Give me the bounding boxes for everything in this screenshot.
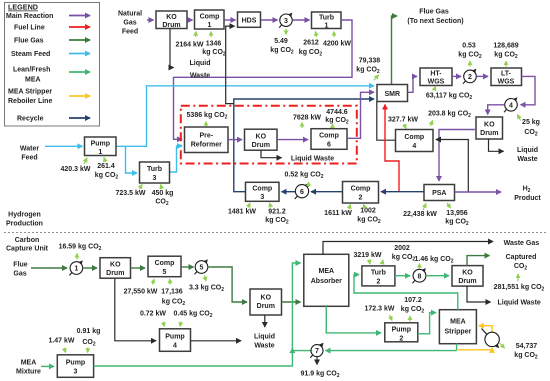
unit KO Drum (CO2 product)	[452, 266, 483, 287]
svg-text:PSA: PSA	[432, 190, 446, 197]
svg-text:MEA: MEA	[21, 360, 37, 367]
svg-text:Carbon: Carbon	[15, 237, 40, 244]
svg-text:27,550 kW: 27,550 kW	[124, 289, 158, 296]
wire purple: PSA to H2 product	[455, 191, 502, 193]
label 0.91 kg CO2	[77, 328, 101, 353]
svg-text:MEA: MEA	[319, 268, 335, 275]
svg-text:723.5 kW: 723.5 kW	[116, 190, 146, 197]
label 327.7 kW	[388, 117, 418, 129]
wire black: KO Drum liquid waste	[170, 29, 174, 68]
svg-text:54,737: 54,737	[516, 343, 538, 350]
node H2 Product	[514, 186, 541, 203]
wire purple: valve 4 to KO Drum (H2)	[488, 105, 505, 115]
wire purple: Pre-Reformer to KO Drum (mid)	[228, 139, 242, 141]
svg-text:KO: KO	[484, 122, 495, 129]
svg-text:Turb: Turb	[319, 15, 334, 22]
svg-text:Liquid Waste: Liquid Waste	[291, 155, 334, 162]
wire purple: LT-WGS to valve 4	[521, 76, 536, 104]
node Flue Gas (To next Section)	[407, 9, 463, 26]
wire green: valve 8 to KO Drum (CO2)	[426, 275, 449, 277]
svg-text:128,689: 128,689	[493, 43, 518, 50]
wire navy: PSA to Comp 2	[381, 191, 424, 193]
label 921.2 kg CO2	[265, 203, 289, 226]
svg-text:6: 6	[300, 189, 304, 196]
svg-text:Main Reaction: Main Reaction	[6, 13, 53, 20]
unit LT-WGS	[491, 68, 522, 86]
svg-text:Lean/Fresh: Lean/Fresh	[13, 67, 50, 74]
node Hydrogen Production	[6, 212, 43, 228]
svg-text:Steam Feed: Steam Feed	[11, 51, 50, 58]
svg-text:172.3 kW: 172.3 kW	[365, 306, 395, 313]
svg-text:2: 2	[359, 195, 363, 202]
node Water Feed	[20, 146, 39, 162]
node Liquid Waste (H2 KO drum)	[517, 147, 538, 163]
svg-text:4: 4	[509, 102, 513, 109]
svg-text:Liquid: Liquid	[517, 147, 538, 154]
wire purple: valve 3 to Turb 1	[293, 19, 310, 21]
svg-text:Drum: Drum	[257, 303, 275, 310]
svg-text:Comp: Comp	[252, 186, 272, 193]
svg-text:MEA: MEA	[450, 319, 466, 326]
svg-text:5: 5	[200, 265, 204, 272]
label 17,136 kg CO2	[161, 279, 185, 307]
wire dark green: Comp 5 to valve 5	[181, 266, 194, 268]
svg-text:(To next Section): (To next Section)	[407, 18, 463, 25]
svg-text:22,438 kW: 22,438 kW	[403, 211, 437, 218]
wire black: absorber waste gas	[323, 242, 493, 255]
svg-text:107.2: 107.2	[404, 297, 422, 304]
svg-text:3: 3	[284, 18, 288, 25]
wire navy: Comp 3 recycle to SMR	[234, 99, 374, 192]
legend row Lean/Fresh MEA	[13, 67, 90, 84]
svg-text:Flue Gas: Flue Gas	[419, 9, 449, 16]
label 450 kg CO2	[152, 185, 174, 208]
unit SMR	[377, 85, 408, 102]
unit Pump 2	[385, 323, 418, 343]
node MEA Mixture	[16, 360, 41, 376]
label 16.59 kg CO2	[59, 244, 102, 260]
label 3.3 kg CO2	[189, 276, 224, 294]
node Natural Gas Feed	[118, 11, 142, 36]
svg-text:17,136: 17,136	[161, 289, 183, 296]
wire black: KO Drum 2 liquid waste	[264, 315, 266, 327]
label 54,737 kg CO2	[500, 343, 538, 361]
svg-text:Gas: Gas	[13, 271, 26, 278]
svg-text:1481 kW: 1481 kW	[228, 209, 256, 216]
svg-text:KO: KO	[462, 270, 473, 277]
svg-text:Drum: Drum	[480, 130, 498, 137]
unit KO Drum 2 (capture)	[250, 289, 282, 315]
svg-text:Capture Unit: Capture Unit	[6, 246, 49, 253]
svg-text:Absorber: Absorber	[311, 278, 342, 285]
svg-text:3219 kW: 3219 kW	[353, 252, 381, 259]
label 281,551 kg CO2	[494, 274, 545, 293]
svg-text:4200 kW: 4200 kW	[323, 41, 351, 48]
wire green: lean MEA from stripper through valve 7	[326, 350, 457, 352]
wire black: Pump 4 to liquid waste	[191, 340, 242, 342]
svg-text:KO: KO	[166, 14, 177, 21]
svg-text:5: 5	[163, 269, 167, 276]
wire purple: HT-WGS to valve 2	[452, 75, 461, 77]
node Captured CO2	[506, 254, 537, 272]
svg-text:MEA Stripper: MEA Stripper	[8, 89, 52, 96]
unit MEA Stripper	[439, 310, 476, 344]
label 107.2 kg CO2	[401, 297, 425, 322]
svg-text:KO: KO	[261, 295, 272, 302]
wire dark green: flue gas to valve 1	[31, 267, 67, 269]
wire black: valve 7 CO2 release	[316, 357, 318, 365]
label 420.3 kW	[61, 158, 91, 173]
label 0.45 kg CO2	[174, 311, 213, 327]
wire black: KO Drum (mid) liquid waste	[261, 150, 282, 157]
label 2002 kg CO2	[382, 245, 415, 265]
unit Comp 2	[343, 182, 379, 204]
unit PSA	[424, 185, 455, 201]
wire dark green: SMR flue gas to next section	[392, 16, 398, 85]
label 1.47 kW	[48, 338, 74, 353]
svg-text:Feed: Feed	[122, 29, 138, 36]
svg-text:1346: 1346	[206, 41, 222, 48]
svg-text:Pump: Pump	[165, 334, 184, 341]
svg-text:Waste: Waste	[190, 73, 210, 80]
node Liquid Waste (feed KO drum)	[190, 60, 211, 80]
valve 2	[463, 69, 476, 83]
label 172.3 kW	[365, 306, 395, 321]
svg-text:0.53: 0.53	[462, 43, 476, 50]
unit HT-WGS	[420, 68, 452, 86]
label 5.49 kg CO2	[270, 29, 294, 56]
wire purple: KO Drum to Comp 1	[188, 19, 193, 21]
svg-text:Waste: Waste	[254, 343, 274, 350]
svg-text:Product: Product	[514, 195, 541, 202]
svg-text:Reboiler Line: Reboiler Line	[8, 98, 52, 105]
svg-text:HDS: HDS	[242, 18, 257, 25]
svg-text:Turb: Turb	[371, 270, 386, 277]
svg-text:Waste: Waste	[517, 156, 537, 163]
label 0.52 kg CO2	[285, 172, 324, 188]
svg-text:3: 3	[153, 175, 157, 182]
unit Turb 1	[312, 12, 342, 30]
svg-text:Liquid Waste: Liquid Waste	[498, 300, 541, 307]
svg-text:2164 kW: 2164 kW	[175, 42, 203, 49]
svg-text:Stripper: Stripper	[444, 329, 471, 336]
unit Pump 3	[57, 355, 93, 378]
label 79,338 kg CO2	[356, 58, 380, 81]
svg-text:Reformer: Reformer	[191, 142, 222, 149]
svg-text:4: 4	[173, 343, 177, 350]
svg-text:Feed: Feed	[21, 155, 37, 162]
svg-text:Mixture: Mixture	[16, 369, 41, 376]
wire cyan: water feed to Pump 1	[45, 145, 83, 147]
wire black: KO Drum (CO2) liquid waste	[467, 286, 491, 302]
wire cyan: steam header Pump 1 to SMR	[116, 86, 374, 147]
label 0.72 kW	[140, 311, 166, 327]
unit HDS	[238, 12, 261, 27]
wire purple: Comp 6 to SMR	[347, 92, 374, 138]
label 27,550 kW	[124, 279, 158, 296]
wire purple: Turb 1 down-left to Pre-Reformer	[174, 20, 353, 139]
svg-text:0.91 kg: 0.91 kg	[77, 328, 101, 335]
label 4744.6 kg CO2	[325, 109, 349, 128]
label 13,956 kg CO2	[445, 203, 469, 227]
label 1481 kW	[228, 203, 256, 216]
svg-text:4744.6: 4744.6	[326, 109, 348, 116]
wire black: recycle branch to HDS	[226, 26, 235, 104]
wire purple: KO Drum (mid) to Comp 6	[277, 139, 308, 141]
unit Comp 1	[195, 10, 225, 29]
svg-text:Comp: Comp	[200, 14, 220, 21]
wire green: absorber rich MEA to Pump 2	[326, 306, 381, 333]
svg-text:Comp: Comp	[319, 133, 339, 140]
svg-text:Drum: Drum	[106, 270, 124, 277]
svg-text:1: 1	[98, 149, 102, 156]
wire green: Pump 3 fresh MEA to absorber	[94, 263, 301, 366]
svg-text:6: 6	[327, 142, 331, 149]
svg-text:Waste Gas: Waste Gas	[504, 240, 540, 247]
wire dark green: valve 5 to KO Drum 2 (capture)	[208, 267, 247, 302]
svg-text:1: 1	[208, 22, 212, 29]
valve 4	[504, 98, 517, 112]
svg-text:5.49: 5.49	[274, 38, 288, 45]
wire green: MEA mixture to Pump 3	[41, 365, 54, 367]
unit KO Drum (feed)	[156, 11, 187, 29]
wire yellow: stripper bottoms to reboiler	[458, 348, 492, 350]
node Carbon Capture Unit	[6, 237, 49, 253]
wire yellow: reboiler return to stripper	[479, 326, 492, 333]
label 1611 kW	[324, 205, 352, 218]
svg-text:2: 2	[399, 336, 403, 343]
unit KO Drum (capture feed)	[100, 258, 131, 279]
wire purple: Comp 1 to HDS	[225, 19, 236, 21]
svg-text:Drum: Drum	[162, 22, 180, 29]
svg-text:2: 2	[376, 279, 380, 286]
wire black: KO Drum (capture feed) to Pump 4	[115, 278, 156, 341]
svg-text:Comp: Comp	[155, 260, 175, 267]
valve 5	[195, 260, 208, 274]
svg-text:Drum: Drum	[252, 142, 270, 149]
label 25 kg CO2	[518, 115, 540, 138]
wire green: stripper overhead to Turb 2	[354, 275, 458, 310]
unit KO Drum (pre-reformer)	[245, 129, 278, 150]
svg-text:420.3 kW: 420.3 kW	[61, 166, 91, 173]
wire dark green: KO Drum 2 to MEA Absorber	[282, 301, 301, 303]
svg-text:261.4: 261.4	[97, 163, 115, 170]
label 5386 kg CO2	[187, 112, 228, 128]
unit Turb 3	[140, 162, 170, 183]
svg-text:Comp: Comp	[351, 186, 371, 193]
svg-text:SMR: SMR	[385, 91, 401, 98]
wire purple: KO Drum (H2) to PSA	[439, 130, 476, 182]
svg-text:2612: 2612	[303, 40, 319, 47]
unit Comp 5	[148, 256, 181, 277]
svg-text:4: 4	[412, 143, 416, 150]
svg-text:Natural: Natural	[118, 11, 142, 18]
wire green: Turb 2 to valve 8	[395, 275, 410, 277]
label 1.46 kg CO2	[415, 256, 454, 269]
svg-text:WGS: WGS	[428, 79, 445, 86]
svg-text:3: 3	[74, 369, 78, 376]
wire purple: SMR to HT-WGS	[408, 76, 418, 92]
svg-text:Pump: Pump	[91, 141, 110, 148]
legend row Flue Gas	[14, 38, 90, 45]
unit Comp 6	[311, 129, 347, 150]
svg-text:Drum: Drum	[458, 278, 476, 285]
svg-text:Turb: Turb	[147, 166, 162, 173]
svg-text:Flue Gas: Flue Gas	[14, 38, 44, 45]
svg-text:LT-: LT-	[501, 71, 512, 78]
svg-text:Liquid: Liquid	[254, 334, 275, 341]
svg-text:Water: Water	[20, 146, 39, 153]
svg-text:921.2: 921.2	[268, 209, 286, 216]
svg-text:1: 1	[325, 23, 329, 30]
legend row Steam Feed	[11, 51, 90, 58]
label 723.5 kW	[116, 185, 146, 198]
legend row Recycle	[17, 116, 90, 123]
wire black: H2 branch up to Comp 4	[436, 140, 468, 193]
wire cyan: Pump 1 branch to Turb 3	[126, 146, 138, 173]
svg-text:KO: KO	[110, 262, 121, 269]
svg-text:Gas: Gas	[123, 20, 136, 27]
label 1002 kg CO2	[357, 205, 381, 226]
svg-text:Fuel Line: Fuel Line	[14, 25, 45, 32]
unit MEA Absorber	[304, 254, 349, 306]
svg-text:MEA: MEA	[25, 77, 41, 84]
label 2164 kW	[175, 32, 203, 49]
svg-text:25 kg: 25 kg	[522, 119, 540, 126]
unit Pump 1	[85, 137, 117, 156]
svg-text:Captured: Captured	[506, 254, 537, 261]
wire dark green: valve 1 to KO Drum (capture)	[83, 267, 97, 269]
label 63,117 kg CO2	[426, 87, 473, 102]
wire navy: Comp 2 to valve 6	[311, 191, 343, 193]
wire purple: HDS to valve 3	[261, 19, 278, 21]
unit Comp 4	[396, 130, 434, 152]
svg-text:Comp: Comp	[404, 134, 424, 141]
valve 1	[69, 261, 82, 275]
svg-text:0.72 kW: 0.72 kW	[140, 311, 166, 318]
valve 3	[279, 13, 292, 27]
label 261.4 kg CO2	[95, 158, 119, 181]
svg-text:Production: Production	[6, 221, 43, 228]
svg-text:1: 1	[74, 266, 78, 273]
valve 6	[295, 184, 309, 199]
label 7628 kW	[293, 115, 321, 129]
wire green: stripper bottoms	[456, 344, 458, 351]
node Flue Gas (capture feed)	[13, 262, 27, 278]
unit Pump 4	[160, 329, 191, 352]
red dash-dot boundary box	[181, 106, 357, 164]
unit Pre-Reformer	[185, 127, 229, 153]
svg-text:13,956: 13,956	[446, 210, 468, 217]
svg-text:Liquid: Liquid	[190, 60, 211, 67]
svg-text:7628 kW: 7628 kW	[293, 115, 321, 122]
svg-text:Hydrogen: Hydrogen	[8, 212, 41, 219]
section divider dashed	[4, 232, 546, 234]
legend row MEA Stripper Reboiler Line	[8, 89, 90, 106]
svg-text:Pump: Pump	[66, 360, 85, 367]
svg-text:8: 8	[418, 273, 422, 280]
svg-text:2002: 2002	[394, 245, 410, 252]
label 3219 kW	[353, 252, 381, 264]
svg-text:1.47 kW: 1.47 kW	[48, 338, 74, 345]
wire cyan: Turb 3 to Pre-Reformer	[170, 146, 183, 172]
wire black: Comp 4 to SMR bottom	[377, 102, 396, 141]
svg-text:LEGEND: LEGEND	[8, 3, 38, 12]
legend row Main Reaction	[6, 13, 90, 20]
label 1346 kg CO2	[202, 32, 226, 58]
wire purple: feed to KO Drum	[147, 19, 154, 21]
unit Turb 2	[362, 266, 395, 286]
svg-text:HT-: HT-	[430, 71, 442, 78]
svg-text:1002: 1002	[360, 208, 376, 215]
valve 8	[412, 269, 426, 284]
svg-text:Flue: Flue	[13, 262, 27, 269]
svg-text:7: 7	[315, 348, 319, 355]
svg-text:Recycle: Recycle	[17, 116, 44, 123]
wire dark green: KO Drum to Comp 5	[131, 267, 146, 269]
svg-text:WGS: WGS	[498, 79, 515, 86]
label 22,438 kW	[403, 204, 437, 219]
svg-text:327.7 kW: 327.7 kW	[388, 117, 418, 124]
wire purple: valve 2 to LT-WGS	[477, 75, 489, 77]
svg-text:KO: KO	[256, 134, 267, 141]
svg-text:79,338: 79,338	[359, 58, 381, 65]
legend row Fuel Line	[14, 25, 90, 32]
svg-text:Pump: Pump	[392, 327, 411, 334]
wire dark green: KO Drum captured CO2	[467, 256, 490, 266]
label 0.53 kg CO2	[458, 43, 482, 67]
wire red: fuel line to SMR	[385, 105, 399, 192]
svg-text:2: 2	[468, 74, 472, 81]
svg-text:1611 kW: 1611 kW	[324, 210, 352, 217]
svg-text:Pre-: Pre-	[199, 133, 213, 140]
valve 7	[310, 343, 323, 357]
svg-text:450 kg: 450 kg	[152, 190, 174, 197]
wire green: Pump 2 to MEA Stripper	[418, 313, 436, 334]
label 4200 kW	[323, 32, 351, 48]
unit KO Drum (H2 section)	[476, 117, 503, 139]
reboiler heat exchanger	[482, 329, 500, 348]
legend box	[5, 3, 100, 127]
unit Comp 3	[246, 182, 280, 201]
label 203.8 kg CO2	[428, 111, 471, 127]
label 128,689 kg CO2	[493, 43, 518, 67]
wire black: KO Drum (H2) liquid waste	[489, 139, 504, 151]
node Liquid Waste (capture KO)	[254, 334, 275, 350]
label 2612 kg CO2	[299, 32, 323, 58]
wire navy: valve 6 to Comp 3	[282, 191, 296, 193]
svg-text:3: 3	[260, 194, 264, 201]
